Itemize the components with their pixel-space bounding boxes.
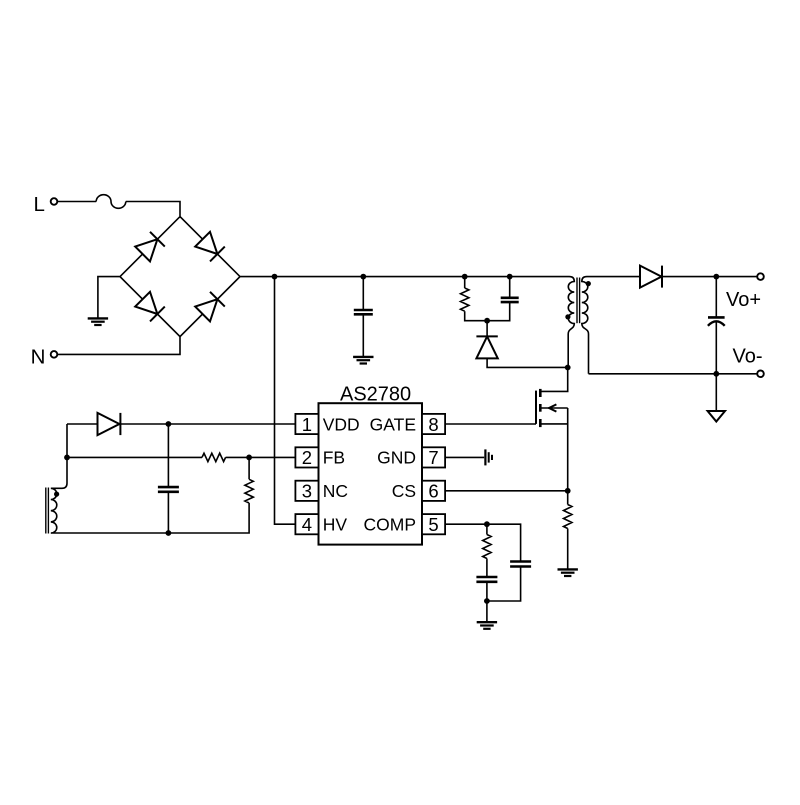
svg-text:1: 1 bbox=[302, 414, 312, 435]
svg-text:3: 3 bbox=[302, 481, 312, 502]
svg-text:GND: GND bbox=[377, 448, 416, 468]
svg-text:VDD: VDD bbox=[323, 414, 360, 434]
svg-text:6: 6 bbox=[428, 481, 438, 502]
svg-text:N: N bbox=[31, 346, 46, 369]
svg-text:CS: CS bbox=[392, 481, 416, 501]
svg-text:HV: HV bbox=[323, 515, 348, 535]
svg-text:NC: NC bbox=[323, 481, 348, 501]
svg-text:2: 2 bbox=[302, 447, 312, 468]
svg-text:AS2780: AS2780 bbox=[340, 384, 411, 406]
svg-text:4: 4 bbox=[302, 514, 312, 535]
svg-text:8: 8 bbox=[428, 414, 438, 435]
svg-text:Vo+: Vo+ bbox=[726, 289, 761, 311]
svg-text:COMP: COMP bbox=[364, 515, 417, 535]
svg-text:7: 7 bbox=[428, 447, 438, 468]
svg-text:Vo-: Vo- bbox=[733, 345, 763, 367]
svg-text:FB: FB bbox=[323, 448, 345, 468]
svg-text:L: L bbox=[34, 193, 45, 216]
svg-text:5: 5 bbox=[428, 514, 438, 535]
svg-text:GATE: GATE bbox=[370, 414, 416, 434]
